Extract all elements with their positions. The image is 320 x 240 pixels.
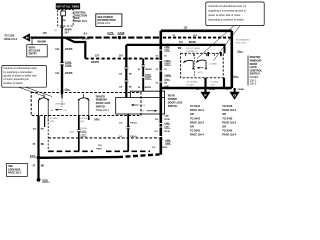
note: see grounds: [7, 163, 28, 176]
dashed divider in sub-box: [194, 55, 196, 77]
dashed bus inside master box: [163, 35, 230, 38]
svg-text:1P (UP): 1P (UP): [186, 84, 193, 86]
svg-text:TO S342: TO S342: [190, 105, 201, 108]
central junction box (dashed enclosure): [58, 10, 73, 26]
svg-text:RD: RD: [41, 129, 45, 131]
svg-text:SWITCH: SWITCH: [168, 105, 178, 108]
gray pin labels above bottom edge: [186, 81, 218, 86]
svg-text:(DOWN): (DOWN): [210, 64, 218, 66]
label 114 PK/O: [97, 144, 103, 150]
svg-text:TO C290: TO C290: [4, 35, 15, 38]
label: rear power door lock switch: [168, 95, 183, 109]
driver window/door lock switch (dashed box): [31, 93, 141, 116]
wire: 57 BK to ground: [33, 158, 45, 180]
svg-text:PAGE 119-2: PAGE 119-2: [190, 109, 204, 112]
note: with keyless entry: [27, 39, 47, 57]
svg-text:Controls a bi-directional moto: Controls a bi-directional motor,: [3, 67, 37, 70]
svg-text:(DOWN): (DOWN): [80, 118, 88, 120]
svg-text:OR: OR: [222, 113, 226, 116]
svg-text:BK: BK: [129, 86, 133, 88]
svg-text:(RUN/ACCY): (RUN/ACCY): [186, 50, 198, 53]
svg-text:PK/W: PK/W: [162, 147, 167, 149]
lock arrow glyph right: [140, 110, 158, 113]
fuse 30A: [61, 9, 66, 22]
wire: 57 BK to splice: [33, 116, 45, 158]
connector breaks (white gaps): [62, 63, 143, 131]
wire from rear switch to line A: [119, 114, 137, 151]
svg-text:PAGE 119-3: PAGE 119-3: [190, 121, 204, 124]
rail connector labels upper: [156, 45, 172, 88]
svg-text:BK/PK: BK/PK: [65, 29, 72, 31]
svg-text:BK/PK: BK/PK: [145, 69, 152, 71]
svg-text:PAGE 119-4: PAGE 119-4: [190, 134, 204, 137]
rail connector labels lower: [152, 114, 171, 149]
label: central junction box: [74, 10, 88, 23]
svg-text:PK/LG: PK/LG: [130, 123, 137, 125]
svg-text:BK/WH: BK/WH: [82, 38, 90, 40]
wire: ground bus 57 BK/WH: [31, 36, 162, 38]
svg-text:TO S443: TO S443: [222, 117, 233, 120]
svg-text:TO S543: TO S543: [222, 130, 233, 133]
svg-text:BK/PK: BK/PK: [145, 87, 152, 89]
svg-text:OR: OR: [190, 113, 194, 116]
switch rocker C: [183, 60, 194, 69]
svg-text:PK (LOCK): PK (LOCK): [236, 43, 246, 45]
wire x143 with connector to driver box: [138, 59, 152, 92]
svg-text:by supplying a momentary: by supplying a momentary: [3, 71, 33, 74]
pin wire to connector F: [196, 78, 216, 92]
svg-text:ground or power to either side: ground or power to either side: [3, 75, 37, 78]
svg-text:OR.XX: OR.XX: [139, 105, 146, 107]
rail inline ticks lower: [160, 124, 163, 137]
note: see power distribution: [96, 14, 122, 27]
label: to C290: [4, 35, 18, 41]
svg-text:NOT (POWER): NOT (POWER): [186, 48, 200, 50]
gray pin labels below driver box: [47, 118, 101, 123]
svg-text:PAGE 100-1: PAGE 100-1: [96, 109, 110, 112]
arrow glyph in sub-box: [197, 67, 208, 70]
label: master window/door lock control switch: [248, 55, 263, 85]
svg-text:(UP): (UP): [80, 121, 84, 123]
svg-text:TO S442: TO S442: [190, 117, 201, 120]
svg-text:HOT AT ALL TIMES: HOT AT ALL TIMES: [57, 6, 80, 9]
wire: jog branch to switch feed: [65, 38, 90, 59]
label 173 BK/PK: [179, 42, 196, 44]
svg-text:position of switch.: position of switch.: [3, 82, 23, 85]
svg-text:OR: OR: [190, 126, 194, 129]
svg-text:TO S343: TO S343: [222, 105, 233, 108]
wire: 141 BK/PK drop from bus: [55, 38, 73, 93]
svg-text:PAGE 119-4: PAGE 119-4: [222, 134, 236, 137]
svg-text:157: 157: [95, 53, 100, 57]
label C270 CASE: [107, 32, 125, 35]
wire: lock motor feed with connector: [70, 116, 88, 152]
svg-text:RD/BD: RD/BD: [208, 89, 215, 91]
svg-text:PAGE 119-2: PAGE 119-2: [222, 109, 236, 112]
dashed line A (thin): [48, 137, 159, 139]
gray labels right of box: [233, 40, 250, 78]
svg-text:supplying a momentary ground o: supplying a momentary ground or: [208, 9, 246, 13]
svg-text:PK/W: PK/W: [164, 119, 169, 121]
dashed line B: [48, 150, 93, 152]
svg-text:BK: BK: [41, 165, 45, 168]
rail inline ticks: [159, 50, 162, 82]
svg-text:H: H: [26, 35, 29, 40]
switch rocker A: [38, 94, 49, 115]
svg-text:Controls a bi-directional moto: Controls a bi-directional motor, by: [208, 4, 247, 8]
pin wire to connector G: [224, 78, 245, 92]
svg-text:G: G: [233, 93, 236, 98]
switch rocker D: [196, 60, 207, 70]
svg-text:157: 157: [43, 31, 48, 35]
svg-text:RD (WINDOW): RD (WINDOW): [236, 40, 250, 42]
connector G: [230, 92, 240, 100]
svg-text:(UP): (UP): [211, 84, 215, 86]
dashed door boundary vertical: [44, 116, 46, 128]
svg-text:PAGE 151-2: PAGE 151-2: [8, 172, 22, 175]
wire: 157 BK/PK dashed run: [85, 53, 161, 63]
svg-text:PK/WH: PK/WH: [80, 128, 87, 130]
label 57 BK/WH: [38, 31, 48, 44]
svg-text:BK/WH: BK/WH: [38, 39, 47, 43]
label list: to S342: [190, 105, 204, 137]
top pin stubs: [207, 52, 209, 56]
svg-text:power to either side of motor,: power to either side of motor,: [208, 13, 241, 17]
wire: window feed from master switch: [119, 45, 226, 98]
wire: fuse output 50-7: [54, 16, 72, 38]
svg-text:TO S542: TO S542: [190, 130, 201, 133]
svg-text:BK/PK: BK/PK: [91, 60, 99, 64]
door lock switch solid box: [116, 91, 165, 114]
svg-text:C4B: C4B: [164, 114, 169, 117]
svg-text:PAGE 13-5: PAGE 13-5: [74, 19, 88, 23]
svg-text:(2): (2): [54, 30, 57, 32]
svg-text:PAGE 13-5: PAGE 13-5: [97, 21, 110, 25]
note: bi-directional motor callout (left): [2, 66, 52, 97]
svg-text:BK/PK: BK/PK: [65, 49, 72, 51]
pin ticks on sub-box: [185, 53, 214, 56]
svg-text:50-7: 50-7: [65, 32, 70, 34]
svg-text:(DOWN): (DOWN): [211, 81, 219, 83]
gray note not power: [186, 48, 200, 53]
switch rocker B: [78, 94, 90, 115]
power feed: hot at all times banner: [56, 3, 80, 9]
svg-text:BK: BK: [129, 73, 133, 75]
svg-text:of motor, depending on: of motor, depending on: [3, 78, 29, 81]
svg-text:ENTRY: ENTRY: [29, 53, 38, 56]
master switch dashed sub-box: [181, 53, 224, 78]
svg-text:OR: OR: [222, 126, 226, 129]
svg-text:BK: BK: [41, 143, 45, 146]
arrow glyph 4: [51, 109, 67, 113]
svg-text:100-2: 100-2: [250, 82, 257, 86]
label list: to S343: [222, 105, 236, 137]
label: driver switch: [96, 95, 111, 112]
svg-text:114: 114: [119, 54, 124, 57]
svg-text:PK/W: PK/W: [164, 131, 169, 133]
splice on ground bus: [117, 35, 123, 41]
svg-text:1R (DOWN): 1R (DOWN): [186, 81, 197, 83]
callout note (top right): [197, 2, 264, 61]
connector F: [200, 92, 210, 100]
svg-text:PK/LG: PK/LG: [130, 136, 137, 138]
svg-text:depending on position of switc: depending on position of switch.: [208, 18, 245, 22]
svg-text:PAGE 151-2: PAGE 151-2: [4, 38, 18, 41]
switch common entry: [56, 93, 66, 108]
svg-text:4(XX): 4(XX): [198, 72, 203, 74]
lock arrow glyph left: [131, 104, 146, 107]
svg-text:PK/BK: PK/BK: [238, 89, 245, 91]
svg-text:BK/PK: BK/PK: [65, 73, 72, 75]
svg-text:BK/PK: BK/PK: [189, 42, 196, 44]
wire: bottom return run: [39, 156, 119, 159]
svg-text:6M: 6M: [178, 47, 181, 50]
svg-text:BK: BK: [164, 83, 168, 85]
svg-text:(WINDOW): (WINDOW): [56, 103, 66, 105]
pin stub with connector: [88, 116, 90, 121]
svg-text:PAGE 119-3: PAGE 119-3: [222, 121, 236, 124]
connector arrow H (to C290): [22, 33, 30, 41]
main rail (master switch left edge / return wire): [159, 31, 162, 155]
ground G302: [37, 178, 50, 182]
splice S302: [30, 155, 41, 159]
master window/door lock control switch box: [161, 31, 232, 88]
svg-text:PK/O: PK/O: [97, 148, 103, 150]
